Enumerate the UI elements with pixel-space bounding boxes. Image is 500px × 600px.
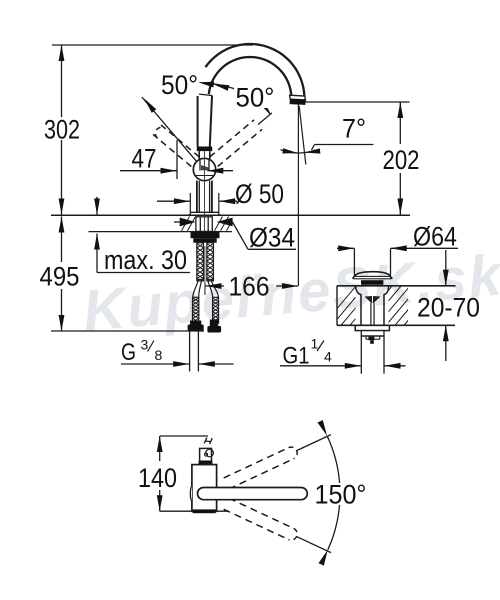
lever base cap bbox=[197, 147, 212, 152]
left supply hose bbox=[193, 281, 198, 297]
right hose connector bbox=[210, 320, 219, 327]
svg-text:7°: 7° bbox=[342, 114, 366, 144]
svg-text:4: 4 bbox=[324, 349, 332, 365]
202 dimension line bbox=[399, 102, 401, 144]
joint internal detail bbox=[199, 160, 201, 171]
svg-text:166: 166 bbox=[229, 272, 270, 302]
svg-text:140: 140 bbox=[138, 463, 177, 493]
deck top line bbox=[337, 285, 456, 287]
drain body bbox=[356, 286, 362, 326]
dia64 extension lines bbox=[353, 248, 355, 275]
302 dimension line bbox=[61, 45, 63, 117]
swivel spout dashed upper bbox=[224, 448, 289, 478]
handle top view bbox=[200, 448, 212, 461]
svg-text:3: 3 bbox=[141, 337, 149, 353]
svg-text:Ø34: Ø34 bbox=[249, 223, 295, 253]
countertop bottom line bbox=[89, 231, 233, 233]
handle collar dark band bbox=[199, 461, 213, 464]
drain pull rod bbox=[370, 303, 372, 326]
max30 lower arrow and leader bbox=[96, 234, 98, 273]
dia34 leader bbox=[233, 222, 249, 249]
202 extension line (outlet) bbox=[305, 101, 410, 103]
countertop hatch right bbox=[215, 217, 223, 231]
shank center line bbox=[204, 246, 206, 295]
svg-text:20-70: 20-70 bbox=[417, 293, 480, 323]
20-70 dimension bbox=[445, 250, 447, 286]
washer stack bbox=[191, 232, 220, 238]
body left boss bbox=[190, 486, 192, 501]
dia34 arrows bbox=[174, 221, 181, 223]
lever handle bbox=[197, 94, 199, 147]
svg-text:Ø 50: Ø 50 bbox=[235, 179, 284, 209]
svg-text:150°: 150° bbox=[315, 480, 367, 510]
7 deg leader bbox=[312, 145, 315, 151]
495 bottom reference line bbox=[51, 330, 204, 332]
left hose connector bbox=[190, 321, 201, 326]
svg-text:max. 30: max. 30 bbox=[104, 245, 187, 275]
bottomview top reference line bbox=[160, 435, 208, 437]
tailpipe inner step bbox=[365, 336, 367, 339]
spout top view (solid) bbox=[198, 488, 308, 500]
svg-text:Ø64: Ø64 bbox=[413, 222, 457, 252]
dia50 arrows bbox=[157, 200, 190, 202]
right 50 deg arrowheads bbox=[213, 84, 229, 91]
left hose G3/8 tail bbox=[189, 331, 191, 371]
label 50 deg left (on white) bbox=[159, 74, 199, 96]
countertop top line bbox=[51, 214, 410, 216]
svg-text:8: 8 bbox=[155, 347, 163, 363]
deck bottom line bbox=[337, 324, 455, 326]
7 deg arc bbox=[281, 150, 316, 153]
deck left edge bbox=[336, 286, 338, 326]
base skirt walls bbox=[189, 193, 191, 212]
drain locknut bbox=[361, 331, 384, 336]
mounting hex nut bbox=[196, 217, 212, 232]
47 extension line bbox=[176, 140, 178, 179]
140 dimension line bbox=[159, 436, 161, 461]
svg-text:50°: 50° bbox=[236, 83, 275, 113]
166 axis tick bbox=[204, 283, 206, 295]
svg-text:G1: G1 bbox=[283, 343, 310, 370]
body bottom band bbox=[193, 509, 216, 513]
150 deg arc bbox=[327, 436, 340, 550]
max30 upper arrow bbox=[96, 197, 98, 199]
swivel spout dashed lower bbox=[229, 498, 294, 528]
drain tailpipe bbox=[360, 336, 362, 374]
svg-text:1: 1 bbox=[311, 336, 319, 352]
svg-text:202: 202 bbox=[383, 145, 420, 175]
drain flange bbox=[355, 325, 389, 330]
popup waste cap dome bbox=[353, 272, 393, 279]
center line lower bbox=[204, 191, 206, 232]
deck hatching bbox=[323, 286, 500, 325]
label 150 deg (on white) bbox=[313, 483, 369, 505]
body top view bbox=[192, 465, 217, 512]
302 extension line (spout top) bbox=[52, 44, 253, 46]
drain rod tip bbox=[368, 337, 374, 341]
G1 1/4 dimension line bbox=[280, 365, 361, 367]
body neck inner walls bbox=[198, 181, 200, 213]
stream vertical extension line bbox=[297, 105, 299, 287]
lever tilted left 50 deg (dashed) bbox=[153, 134, 191, 166]
handle knob top mark bbox=[204, 438, 207, 444]
47 dimension line and arrows bbox=[120, 170, 177, 172]
spout inner wall arc bbox=[209, 57, 291, 95]
150 deg arrowheads bbox=[318, 420, 328, 436]
label 50 deg right (on white) bbox=[234, 87, 277, 108]
spout aerator outlet bbox=[290, 95, 306, 100]
watermark KupelneSK bbox=[80, 242, 500, 343]
popup cap rim bbox=[354, 276, 391, 278]
495 dimension line bbox=[61, 217, 63, 263]
countertop hatch left bbox=[182, 217, 190, 231]
stream 7 deg line bbox=[299, 106, 306, 165]
joint ball circle bbox=[193, 158, 215, 180]
left 50 deg boundary line bbox=[142, 97, 197, 161]
center line bbox=[204, 150, 206, 191]
base plate slab bbox=[190, 211, 219, 213]
threaded shank bbox=[197, 243, 204, 281]
svg-text:47: 47 bbox=[132, 144, 157, 174]
popup seal ring bbox=[361, 280, 383, 284]
G3/8 dimension line bbox=[121, 363, 189, 365]
dia64 dimension line bbox=[337, 247, 354, 249]
body neck outer walls bbox=[196, 181, 198, 213]
right supply hose bbox=[208, 281, 213, 297]
svg-text:G: G bbox=[121, 339, 136, 366]
drain funnel seat bbox=[365, 296, 372, 303]
svg-text:302: 302 bbox=[44, 115, 80, 145]
left 50 deg arc bbox=[162, 74, 191, 83]
right 50 deg arc bbox=[211, 84, 270, 114]
left 50 deg arrowheads bbox=[144, 99, 156, 113]
svg-text:50°: 50° bbox=[161, 70, 198, 100]
svg-text:495: 495 bbox=[40, 262, 80, 292]
lever tilted right 50 deg (dashed) bbox=[210, 120, 254, 157]
right 50 deg boundary line bbox=[258, 113, 272, 125]
166 dimension line bbox=[206, 285, 225, 287]
spout outer wall arc bbox=[205, 44, 304, 96]
bottomview bottom reference line bbox=[160, 510, 229, 512]
